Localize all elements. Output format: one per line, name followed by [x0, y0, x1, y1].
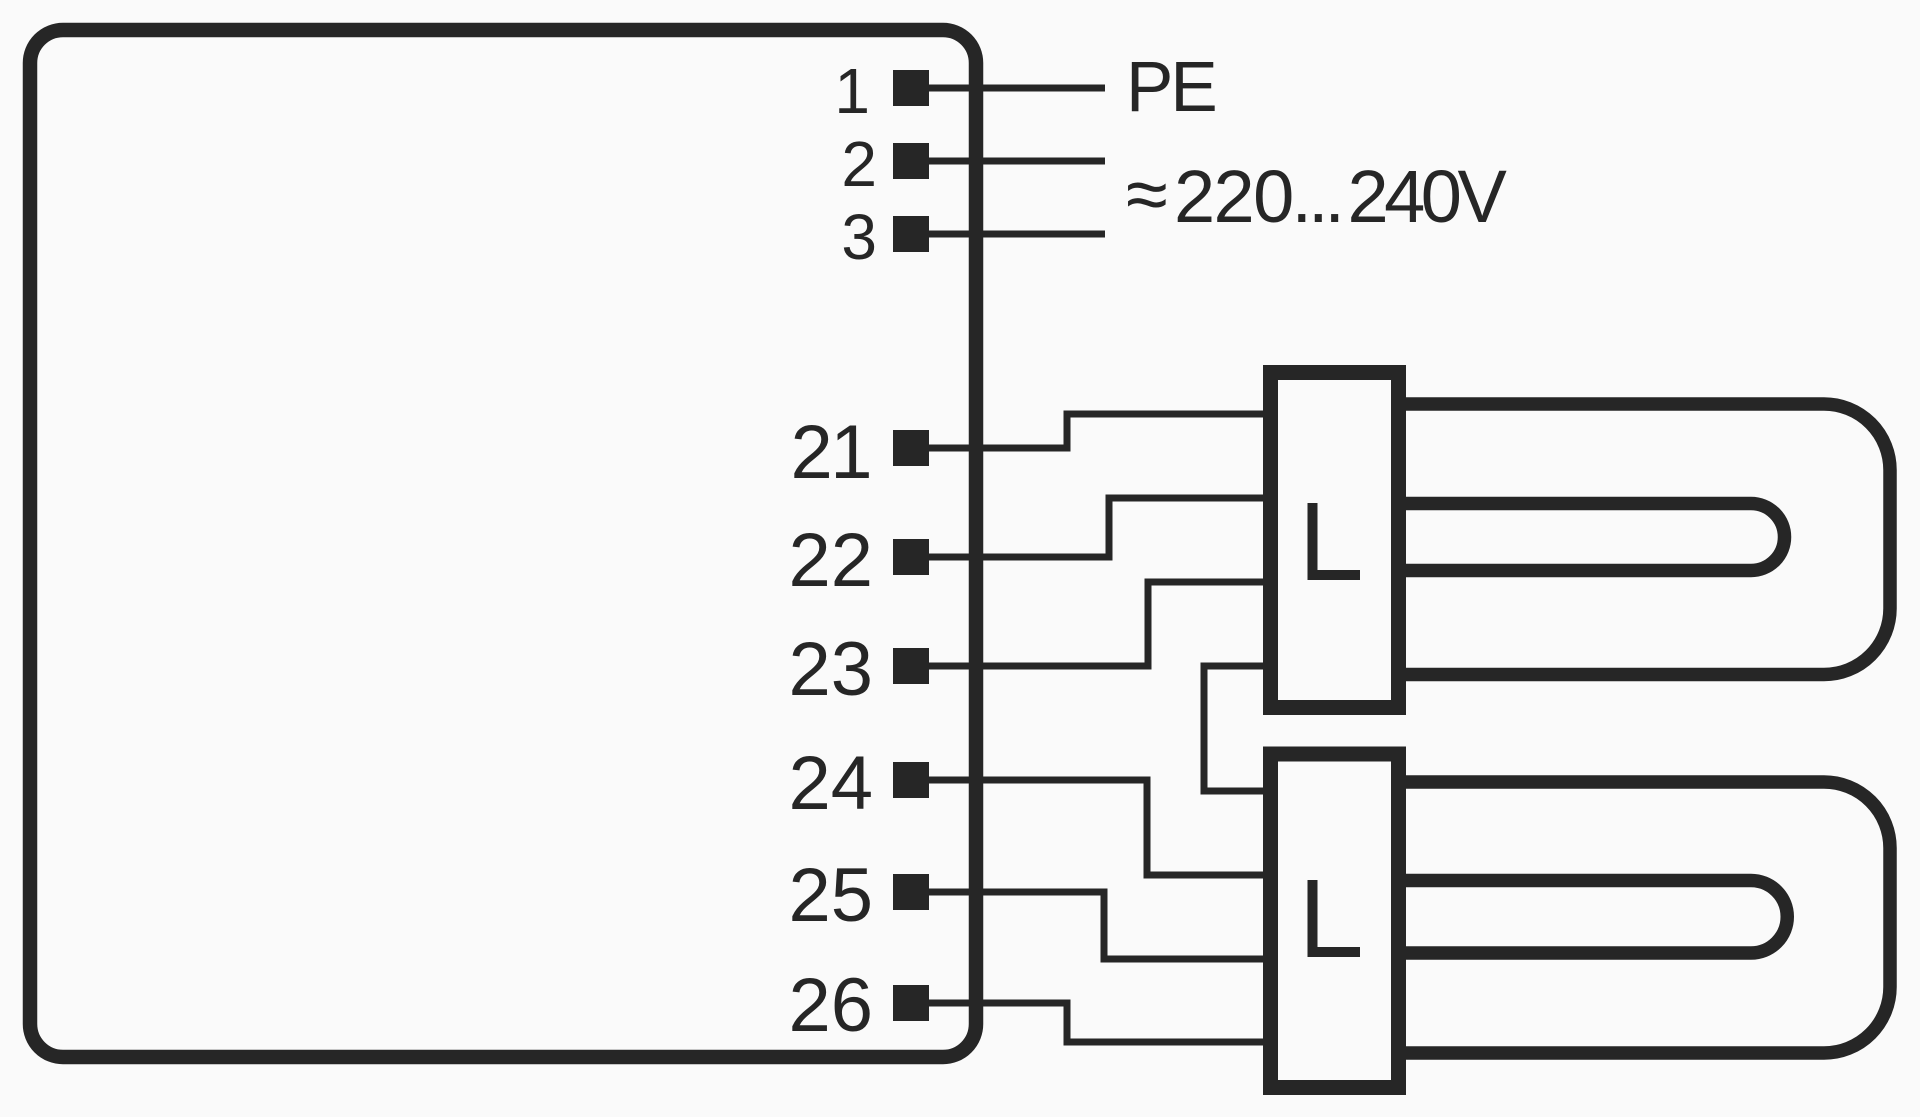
- svg-text:PE: PE: [1126, 48, 1215, 127]
- terminal square 3: [893, 216, 929, 252]
- terminal square 22: [893, 539, 929, 575]
- lamp L1 tube outer: [1400, 404, 1890, 675]
- wire terminal 23 to lamp L1 pin3: [911, 582, 1272, 666]
- wire terminal 3 to mains: [911, 231, 1105, 238]
- wire terminal 22 to lamp L1 pin2: [911, 498, 1272, 557]
- svg-text:25: 25: [788, 853, 873, 938]
- terminal square 24: [893, 762, 929, 798]
- wire terminal 25 to lamp L2 pin3: [911, 892, 1272, 959]
- svg-text:23: 23: [788, 627, 873, 712]
- svg-text:≈: ≈: [1126, 152, 1168, 237]
- terminal square 21: [893, 430, 929, 466]
- lamp L2 tube inner fold: [1400, 881, 1787, 954]
- svg-text:...: ...: [1292, 155, 1341, 238]
- svg-text:26: 26: [788, 963, 873, 1048]
- terminal square 25: [893, 874, 929, 910]
- ballast box U1: [30, 30, 976, 1057]
- wire link lamp L1 pin4 to lamp L2 pin1: [1204, 666, 1272, 791]
- svg-text:22: 22: [788, 518, 873, 603]
- lamp L1 label L: [1313, 503, 1361, 575]
- svg-text:1: 1: [834, 55, 870, 127]
- svg-text:240V: 240V: [1348, 155, 1508, 238]
- lamp L2 cap: [1271, 754, 1399, 1088]
- terminal square 23: [893, 648, 929, 684]
- wire terminal 2 to mains: [911, 158, 1105, 165]
- wire terminal 1 to PE: [911, 85, 1105, 92]
- svg-text:21: 21: [790, 410, 870, 495]
- terminal square 2: [893, 143, 929, 179]
- wire terminal 26 to lamp L2 pin4: [911, 1003, 1272, 1042]
- svg-text:220: 220: [1174, 155, 1293, 238]
- lamp L2 tube outer: [1400, 782, 1890, 1053]
- terminal square 1: [893, 70, 929, 106]
- wire terminal 24 to lamp L2 pin2: [911, 780, 1272, 875]
- lamp L2 label L: [1313, 880, 1361, 952]
- lamp L1 cap: [1271, 373, 1399, 708]
- svg-text:24: 24: [788, 741, 873, 826]
- wire terminal 21 to lamp L1 pin1: [911, 414, 1272, 448]
- svg-text:3: 3: [841, 201, 877, 273]
- lamp L1 tube inner fold: [1400, 504, 1784, 571]
- svg-text:2: 2: [841, 128, 877, 200]
- terminal square 26: [893, 985, 929, 1021]
